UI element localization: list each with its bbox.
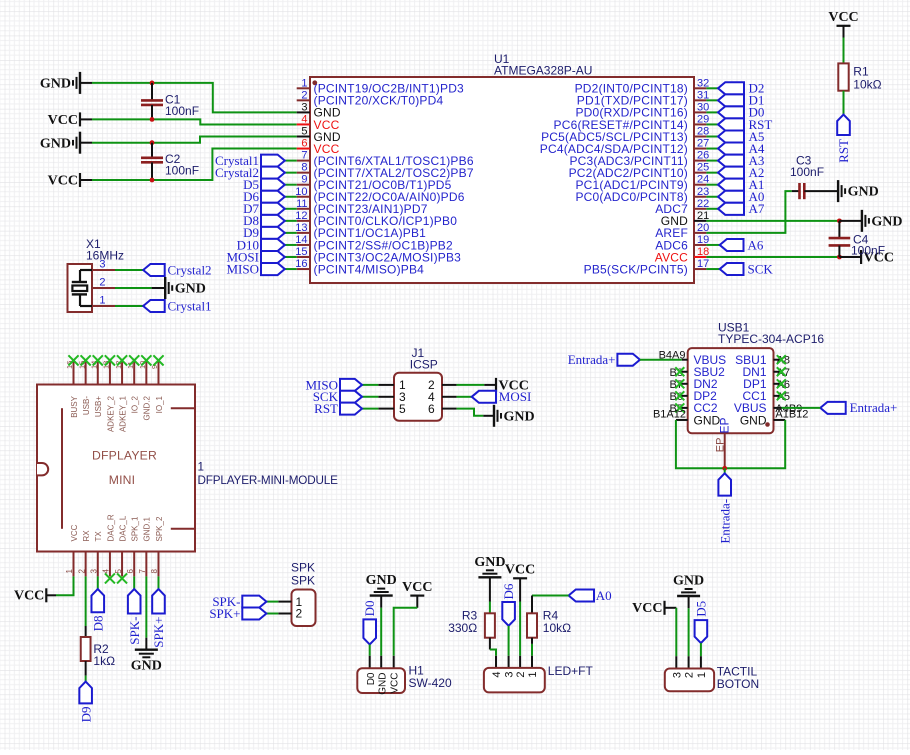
svg-text:MINI: MINI — [109, 473, 136, 487]
svg-text:ADKEY_1: ADKEY_1 — [118, 395, 127, 432]
wire VCC to H1 pin VCC — [416, 596, 418, 608]
U1 pin 20 AREF — [694, 232, 706, 234]
wire R4 to LED+FT pin1 — [531, 638, 533, 644]
net flag D6 (U1 pin 10) — [285, 196, 297, 198]
net flag RST (U1 pin 29) — [706, 123, 718, 125]
svg-text:DAC_R: DAC_R — [106, 514, 115, 541]
net flag SCK (U1 pin 17) — [706, 268, 719, 270]
resistor R3 330 — [485, 613, 495, 637]
U1 pin 22 ADC7 — [694, 208, 706, 210]
svg-text:VCC: VCC — [828, 10, 858, 25]
net flag SPK- (below DFPLAYER) — [128, 589, 141, 614]
svg-text:GND: GND — [504, 409, 535, 424]
net flag SPK+ (below DFPLAYER) — [152, 589, 165, 614]
svg-text:100nF: 100nF — [165, 164, 199, 178]
net flag Crystal1 (U1 pin 7) — [285, 160, 297, 162]
svg-text:8: 8 — [150, 569, 159, 574]
net flag D10 (U1 pin 14) — [285, 244, 297, 246]
svg-text:7: 7 — [138, 569, 147, 574]
svg-text:Crystal1: Crystal1 — [168, 299, 212, 314]
svg-text:100nF: 100nF — [165, 104, 199, 118]
svg-text:GND.1: GND.1 — [143, 517, 152, 542]
svg-text:DFPLAYER-MINI-MODULE: DFPLAYER-MINI-MODULE — [198, 474, 339, 487]
svg-text:12: 12 — [295, 210, 307, 222]
DFPLAYER bottom pin 3 TX — [97, 552, 99, 577]
wire U1 pin18 AVCC to VCC — [706, 256, 839, 258]
svg-text:GND: GND — [40, 136, 71, 151]
wire D5 to TACTIL pin1 — [700, 643, 702, 656]
net flag D8 (U1 pin 12) — [285, 220, 297, 222]
svg-text:RST: RST — [836, 139, 851, 163]
wire DFPLAYER pin3 to D8 flag — [97, 576, 99, 589]
U1 pin 21 GND — [694, 220, 706, 222]
svg-text:4: 4 — [491, 672, 503, 678]
net flag Entrada+ (left of USB1) — [617, 354, 640, 366]
junction at C2 bottom — [150, 178, 155, 183]
svg-text:GND: GND — [366, 573, 397, 588]
wire USB1 GND left loop to EP junction — [676, 420, 725, 468]
net flag SCK (J1 pin3) — [362, 396, 378, 398]
svg-text:9: 9 — [301, 174, 307, 186]
U1 pin 24 PC1(ADC1/PCINT9) — [694, 184, 706, 186]
svg-text:VCC: VCC — [48, 113, 78, 128]
U1 pin 14 (PCINT2/SS#/OC1B)PB2 — [297, 244, 310, 246]
svg-text:3: 3 — [503, 672, 515, 678]
svg-text:VCC: VCC — [632, 601, 662, 616]
ic U1 ATMEGA328P-AU body — [310, 77, 694, 283]
DFPLAYER bottom pin 7 GND.1 — [145, 552, 147, 577]
svg-text:GND: GND — [474, 555, 505, 570]
svg-text:A6: A6 — [748, 237, 764, 252]
svg-text:6: 6 — [301, 138, 307, 150]
wire DFPLAYER pin1 to VCC — [56, 576, 74, 595]
USB1 EP pad dot — [765, 422, 770, 427]
net flag A4 (U1 pin 27) — [706, 148, 718, 150]
svg-text:USB-: USB- — [82, 396, 91, 415]
svg-text:MOSI: MOSI — [499, 389, 532, 404]
net flag SPK- (at SPK connector) — [266, 601, 278, 603]
svg-text:VCC: VCC — [402, 580, 432, 595]
USB1 pin B7 stub with no-connect X — [680, 383, 688, 385]
svg-text:2: 2 — [515, 672, 527, 678]
svg-text:GND: GND — [175, 282, 206, 297]
net flag D9 (U1 pin 13) — [285, 232, 297, 234]
net flag Crystal2 (U1 pin 8) — [285, 172, 297, 174]
X1 pin 3 stub — [92, 269, 115, 271]
U1 pin 16 (PCINT4/MISO)PB4 — [297, 268, 310, 270]
wire U1 pin20 AREF to C3 — [706, 191, 791, 233]
SPK pin 2 — [278, 613, 291, 615]
wire GND to H1 pin GND — [380, 596, 382, 608]
net flag A0 — [569, 590, 594, 602]
DFPLAYER top pin 12 ADKEY_1 — [121, 361, 123, 385]
net flag D9 — [79, 682, 92, 704]
connector LED+FT body — [484, 668, 545, 693]
J1 pins 3/4 — [378, 396, 394, 398]
svg-text:15: 15 — [295, 246, 307, 258]
resistor R2 1k — [81, 637, 91, 661]
net flag A5 (U1 pin 28) — [706, 136, 718, 138]
USB1 pin B4A9 stub — [682, 359, 688, 361]
svg-text:MISO: MISO — [226, 261, 259, 276]
connector SPK body — [292, 590, 316, 627]
U1 pin 4 VCC — [297, 123, 310, 125]
net flag A1 (U1 pin 24) — [706, 184, 718, 186]
svg-text:2: 2 — [296, 607, 303, 621]
svg-text:ADKEY_2: ADKEY_2 — [106, 395, 115, 432]
svg-text:RX: RX — [82, 530, 91, 542]
svg-text:16: 16 — [295, 258, 307, 270]
svg-text:IO_1: IO_1 — [155, 395, 164, 413]
net flag D7 (U1 pin 11) — [285, 208, 297, 210]
U1 pin 3 GND — [297, 111, 310, 113]
net flag MISO (J1 pin1) — [362, 384, 378, 386]
net flag MOSI (J1 pin4) — [457, 396, 472, 398]
X1 pin 2 stub — [92, 287, 115, 289]
DFPLAYER bottom pin 4 DAC_R — [109, 552, 111, 577]
USB1 pin A8 stub with no-connect X — [774, 359, 782, 361]
wire DFPLAYER pin7 to GND — [145, 576, 147, 637]
U1 pin 23 PC0(ADC0/PCINT8) — [694, 196, 706, 198]
no-connect X on DFPLAYER pin5 — [117, 573, 127, 583]
button TACTIL BOTON body — [665, 669, 714, 692]
U1 pin 25 PC2(ADC2/PCINT10) — [694, 172, 706, 174]
power flag GND (at C3) — [837, 180, 839, 202]
U1 pin 19 ADC6 — [694, 244, 706, 246]
svg-text:1: 1 — [301, 77, 307, 89]
wire D6 to LED+FT pin3 — [508, 626, 510, 656]
power flag VCC (right, at C4 bottom) — [860, 250, 862, 264]
junction at C2 top — [150, 140, 155, 145]
net flag MISO (U1 pin 16) — [285, 268, 297, 270]
wire USB1 VBUS right to Entrada+ — [782, 407, 821, 409]
net flag D2 (U1 pin 32) — [706, 87, 718, 89]
net flag D5 (U1 pin 9) — [285, 184, 297, 186]
svg-text:ICSP: ICSP — [410, 358, 438, 372]
wire R1 to RST flag — [843, 91, 845, 115]
net flag SPK+ (at SPK connector) — [266, 613, 278, 615]
junction at C1 bottom — [150, 117, 155, 122]
svg-text:7: 7 — [301, 150, 307, 162]
svg-text:10kΩ: 10kΩ — [543, 621, 571, 635]
DFPLAYER top pin 15 USB- — [85, 361, 87, 385]
power flag VCC (left of DFPLAYER pin1) — [45, 588, 47, 602]
USB1 pin A6 stub with no-connect X — [774, 383, 782, 385]
svg-text:SPK+: SPK+ — [151, 617, 166, 648]
DFPLAYER inner line — [61, 408, 63, 529]
DFPLAYER notch — [37, 463, 48, 475]
svg-text:BUSY: BUSY — [70, 395, 79, 417]
USB1 pin A4B9 stub — [774, 407, 782, 409]
wire GND to TACTIL pin2 — [688, 596, 690, 608]
svg-text:DAC_L: DAC_L — [118, 515, 127, 541]
DFPLAYER bottom pin 1 VCC — [73, 552, 75, 577]
wire D0 flag to H1 — [369, 645, 371, 656]
no-connect X on DFPLAYER pin 14 — [93, 355, 103, 365]
power flag VCC (top right) — [837, 25, 851, 27]
junction pin21/C4 — [837, 218, 842, 223]
svg-text:2: 2 — [99, 277, 105, 289]
svg-text:D0: D0 — [362, 601, 377, 617]
svg-text:LED+FT: LED+FT — [548, 664, 594, 678]
svg-text:Entrada+: Entrada+ — [850, 400, 898, 415]
svg-text:4: 4 — [301, 113, 307, 125]
power flag GND (at X1) — [164, 277, 166, 299]
U1 pin 18 AVCC — [694, 256, 706, 258]
U1 pin 5 GND — [297, 136, 310, 138]
svg-text:100nF: 100nF — [790, 165, 824, 179]
net flag D8 — [91, 589, 104, 612]
wire R3 to LED+FT pin4 — [489, 638, 491, 650]
svg-text:1kΩ: 1kΩ — [93, 654, 115, 668]
wire GND flag to U1 pin5 — [80, 142, 92, 144]
svg-text:VCC: VCC — [505, 563, 535, 578]
U1 pin 29 PC6(RESET#/PCINT14) — [694, 123, 706, 125]
svg-text:GND: GND — [871, 214, 902, 229]
svg-text:A7: A7 — [749, 201, 765, 216]
wire J1 pin6 to GND — [457, 409, 484, 416]
module DFPLAYER-MINI body — [37, 385, 195, 552]
svg-text:3: 3 — [99, 259, 105, 271]
wire DFPLAYER pin6 to SPK- flag — [133, 576, 135, 589]
U1 pin 15 (PCINT3/OC2A/MOSI)PB3 — [297, 256, 310, 258]
power flag GND (above TACTIL) — [677, 595, 700, 597]
U1 pin 32 PD2(INT0/PCINT18) — [694, 87, 706, 89]
power flag GND (right of J1) — [493, 405, 495, 427]
U1 pin 26 PC3(ADC3/PCINT11) — [694, 160, 706, 162]
svg-text:TX: TX — [94, 531, 103, 542]
power flag VCC (above LED+FT) — [513, 577, 527, 579]
svg-text:VCC: VCC — [70, 524, 79, 541]
U1 pin 30 PD0(RXD/PCINT16) — [694, 111, 706, 113]
svg-text:VCC: VCC — [48, 173, 78, 188]
DFPLAYER top pin 14 USB+ — [97, 361, 99, 385]
wire VCC flag to U1 pin4 — [80, 118, 92, 120]
wire junction to Entrada- flag — [724, 468, 726, 473]
svg-text:8: 8 — [301, 162, 307, 174]
power flag VCC (left #2) — [79, 173, 81, 187]
svg-text:5: 5 — [399, 402, 406, 416]
no-connect X on DFPLAYER pin4 — [105, 573, 115, 583]
svg-text:6: 6 — [126, 569, 135, 574]
svg-text:2: 2 — [684, 672, 696, 678]
svg-text:14: 14 — [295, 234, 307, 246]
svg-text:1: 1 — [198, 461, 205, 474]
svg-text:A0: A0 — [596, 588, 612, 603]
svg-text:(PCINT4/MISO)PB4: (PCINT4/MISO)PB4 — [314, 262, 425, 276]
U1 pin 9 (PCINT21/OC0B/T1)PD5 — [297, 184, 310, 186]
net flag Entrada+ (right of USB1) — [820, 402, 845, 414]
wire VCC to TACTIL pin3 — [665, 607, 677, 609]
wire USB1 GND right loop to EP junction — [725, 420, 786, 468]
net flag D0 (U1 pin 30) — [706, 111, 718, 113]
U1 pin 2 (PCINT20/XCK/T0)PD4 — [297, 99, 310, 101]
svg-text:RST: RST — [314, 401, 338, 416]
svg-text:EP: EP — [718, 418, 732, 434]
svg-text:DFPLAYER: DFPLAYER — [92, 449, 157, 463]
DFPLAYER bottom pin 2 RX — [85, 552, 87, 577]
wire VCC to LED+FT pin2 — [519, 578, 521, 601]
wire X1 pin1 to Crystal1 flag — [115, 305, 143, 307]
svg-text:ATMEGA328P-AU: ATMEGA328P-AU — [494, 64, 592, 78]
svg-text:VCC: VCC — [389, 673, 400, 694]
svg-text:2: 2 — [77, 569, 86, 574]
SPK pin 1 — [278, 601, 291, 603]
U1 pin 10 (PCINT22/OC0A/AIN0)PD6 — [297, 196, 310, 198]
U1 pin 7 (PCINT6/XTAL1/TOSC1)PB6 — [297, 160, 310, 162]
svg-text:USB+: USB+ — [94, 396, 103, 417]
no-connect X on DFPLAYER pin 10 — [141, 355, 151, 365]
svg-text:10: 10 — [295, 186, 307, 198]
net flag A6 (U1 pin 19) — [706, 244, 719, 246]
svg-text:GND: GND — [131, 659, 162, 674]
svg-text:D8: D8 — [90, 616, 105, 632]
no-connect X on DFPLAYER pin 16 — [68, 355, 78, 365]
net flag A3 (U1 pin 26) — [706, 160, 718, 162]
svg-text:R1: R1 — [853, 64, 869, 78]
svg-text:D0: D0 — [366, 672, 377, 685]
sensor H1 SW-420 body — [357, 668, 405, 693]
svg-text:Entrada+: Entrada+ — [568, 352, 616, 367]
wire VCC flag to U1 pin6 — [80, 179, 92, 181]
svg-text:D5: D5 — [693, 601, 708, 617]
net flag A7 (U1 pin 22) — [706, 208, 718, 210]
svg-text:SPK_2: SPK_2 — [155, 516, 164, 541]
svg-text:10kΩ: 10kΩ — [853, 77, 881, 91]
svg-text:1: 1 — [527, 672, 539, 678]
wire R2 to D9 flag — [85, 661, 87, 676]
svg-text:PB5(SCK/PCINT5): PB5(SCK/PCINT5) — [584, 262, 688, 276]
power flag GND (above H1) — [370, 594, 393, 596]
no-connect X on DFPLAYER pin 15 — [81, 355, 91, 365]
USB1 pin B8 stub with no-connect X — [680, 371, 688, 373]
U1 pin 12 (PCINT0/CLKO/ICP1)PB0 — [297, 220, 310, 222]
no-connect X on DFPLAYER pin 9 — [153, 355, 163, 365]
DFPLAYER right nub bottom — [171, 528, 194, 530]
power flag GND (left #2) — [79, 132, 81, 154]
DFPLAYER top pin 9 IO_1 — [157, 361, 159, 385]
power flag GND (right of C4 top) — [861, 210, 863, 232]
DFPLAYER top pin 13 ADKEY_2 — [109, 361, 111, 385]
no-connect X on DFPLAYER pin 13 — [105, 355, 115, 365]
DFPLAYER bottom pin 5 DAC_L — [121, 552, 123, 577]
U1 pin 11 (PCINT23/AIN1)PD7 — [297, 208, 310, 210]
DFPLAYER bottom pin 8 SPK_2 — [157, 552, 159, 577]
power flag GND (below DFPLAYER) — [135, 649, 158, 651]
wire GND to R3 — [489, 577, 491, 601]
junction pin18/C4 — [837, 255, 842, 260]
power flag VCC (left of TACTIL) — [663, 601, 665, 615]
power flag VCC (right of J1) — [495, 378, 497, 392]
DFPLAYER top pin 11 IO_2 — [133, 361, 135, 385]
svg-text:3: 3 — [671, 672, 683, 678]
U1 pin 6 VCC — [297, 148, 310, 150]
svg-text:SPK-: SPK- — [127, 617, 142, 645]
DFPLAYER bottom pin 6 SPK_1 — [133, 552, 135, 577]
U1 pin1 marker dot — [312, 80, 317, 85]
svg-text:4: 4 — [102, 569, 111, 574]
net flag Entrada- — [718, 473, 731, 495]
svg-text:GND: GND — [848, 185, 879, 200]
USB1 pin B1A12 stub — [676, 419, 688, 421]
net flag Crystal1 — [143, 300, 165, 312]
net flag Crystal2 — [143, 264, 165, 276]
svg-text:BOTON: BOTON — [717, 677, 759, 691]
USB1 pin A5 stub with no-connect X — [774, 395, 782, 397]
svg-text:IO_2: IO_2 — [131, 395, 140, 413]
resistor R4 10k — [527, 613, 537, 637]
svg-text:100nF: 100nF — [851, 244, 885, 258]
svg-text:D9: D9 — [78, 707, 93, 723]
svg-text:D6: D6 — [501, 583, 516, 599]
wire DFPLAYER pin2 to R2 — [85, 576, 87, 626]
connector J1 ICSP body — [394, 373, 442, 421]
wire VCC to R1 — [843, 26, 845, 38]
capacitor C1 100nF — [151, 83, 153, 100]
power flag GND (top left, net GND) — [79, 72, 81, 94]
svg-text:SPK: SPK — [291, 573, 315, 587]
svg-text:B1A12: B1A12 — [653, 408, 686, 420]
USB1 pin B5 stub with no-connect X — [680, 407, 688, 409]
resistor R1 10k — [838, 63, 848, 90]
connector USB1 TYPEC-304-ACP16 body — [688, 348, 774, 433]
junction at C1 top — [150, 81, 155, 86]
svg-text:SCK: SCK — [748, 261, 774, 276]
svg-text:SPK+: SPK+ — [209, 606, 240, 621]
svg-text:Crystal2: Crystal2 — [168, 263, 212, 278]
wire Entrada+ to USB1 VBUS — [640, 359, 682, 361]
svg-text:6: 6 — [428, 402, 435, 416]
USB1 pin B6 stub with no-connect X — [680, 395, 688, 397]
USB1 pin A7 stub with no-connect X — [774, 371, 782, 373]
X1 pin 1 stub — [92, 305, 115, 307]
power flag VCC (top left #1) — [79, 112, 81, 126]
svg-text:EP: EP — [715, 438, 727, 453]
wire GND flag to U1 pin3 — [80, 82, 92, 84]
svg-text:GND: GND — [40, 77, 71, 92]
net flag MOSI (U1 pin 15) — [285, 256, 297, 258]
net flag RST (below R1) — [837, 115, 850, 136]
net flag A2 (U1 pin 25) — [706, 172, 718, 174]
svg-text:SPK_1: SPK_1 — [131, 516, 140, 541]
capacitor C2 100nF — [151, 143, 153, 158]
power flag VCC (above H1) — [410, 594, 424, 596]
svg-text:Entrada-: Entrada- — [717, 499, 732, 544]
U1 pin 1 (PCINT19/OC2B/INT1)PD3 — [297, 87, 310, 89]
wire U1 pin21 GND to C4/GND — [706, 220, 839, 222]
U1 pin 27 PC4(ADC4/SDA/PCINT12) — [694, 148, 706, 150]
USB1 EP pin line — [724, 433, 726, 468]
svg-text:5: 5 — [301, 126, 307, 138]
DFPLAYER top pin 16 BUSY — [73, 361, 75, 385]
svg-text:VCC: VCC — [14, 589, 44, 604]
wire X1 pin2 to GND — [115, 287, 152, 289]
svg-text:13: 13 — [295, 222, 307, 234]
net flag RST (J1 pin5) — [362, 408, 378, 410]
DFPLAYER right nub top — [171, 407, 194, 409]
wire A0 to R4 — [532, 595, 569, 597]
U1 pin 17 PB5(SCK/PCINT5) — [694, 268, 706, 270]
DFPLAYER top pin 10 GND.2 — [145, 361, 147, 385]
svg-text:330Ω: 330Ω — [448, 621, 477, 635]
svg-text:2: 2 — [301, 89, 307, 101]
no-connect X on DFPLAYER pin 11 — [129, 355, 139, 365]
junction EP/GND — [722, 466, 727, 471]
capacitor C4 100nF — [838, 221, 840, 238]
wire X1 pin3 to Crystal2 flag — [115, 269, 143, 271]
svg-text:GND: GND — [377, 673, 388, 695]
no-connect X on DFPLAYER pin 12 — [117, 355, 127, 365]
